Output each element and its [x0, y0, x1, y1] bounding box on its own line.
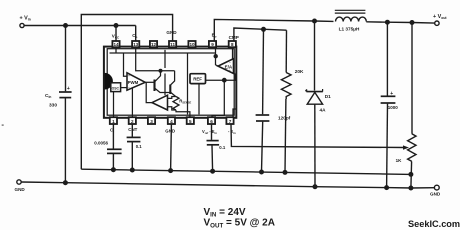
svg-text:0.0056: 0.0056	[94, 140, 108, 145]
wire internal Vcc/EA-out rail	[110, 47, 216, 53]
terminal GND right	[434, 185, 439, 190]
node collector rail junction	[159, 69, 163, 73]
svg-text:D1: D1	[325, 94, 331, 99]
wire Rsense bottom to pin5	[176, 110, 190, 117]
wire pin13 internal collector rail	[136, 47, 175, 71]
node bus/CNT-cap junction	[130, 168, 135, 173]
svg-text:Co: Co	[132, 33, 137, 39]
pin 1	[110, 117, 117, 124]
svg-text:Vref - Ein: Vref - Ein	[202, 129, 217, 135]
wire 20K bottom to bus	[284, 99, 287, 172]
IC pin squares top row	[112, 41, 235, 47]
transistor Q2	[170, 71, 176, 97]
svg-text:CNT: CNT	[128, 127, 137, 132]
pin numbers top	[113, 42, 234, 47]
capacitor pin6 0.1	[207, 124, 220, 171]
svg-text:PWM: PWM	[128, 80, 139, 85]
capacitor Cout 1000	[381, 22, 396, 187]
resistor 20K	[281, 73, 291, 100]
wire pin2 internal	[131, 86, 133, 117]
svg-text:0.1: 0.1	[136, 144, 143, 149]
wire output rail from L1 to +Vout	[366, 22, 434, 23]
pin 2	[129, 117, 136, 124]
node Vin/pin14 junction	[114, 23, 119, 28]
node D1/ground junction	[313, 184, 318, 189]
transistor Q1	[155, 71, 171, 93]
op-amp E/A error amplifier	[218, 59, 234, 74]
IC pin squares bottom row	[110, 117, 234, 124]
svg-text:4A: 4A	[320, 107, 327, 112]
svg-text:330: 330	[49, 102, 57, 108]
dark blob left edge of IC	[105, 73, 113, 90]
svg-text:REF: REF	[193, 77, 202, 82]
inductor L1 coil	[336, 17, 367, 21]
svg-text:=: =	[2, 123, 5, 128]
svg-text:OSC: OSC	[112, 86, 120, 90]
pin numbers bottom	[112, 119, 232, 124]
capacitor CNT 0.1	[127, 124, 141, 170]
terminal +Vout	[435, 21, 439, 25]
pin 6	[208, 117, 215, 124]
wire OSC to PWM	[121, 87, 127, 89]
pin 10	[188, 41, 195, 47]
node Cout junction	[385, 20, 390, 25]
svg-text:5: 5	[189, 119, 192, 124]
capacitor Ct 0.0056	[107, 124, 122, 170]
svg-text:7: 7	[229, 119, 232, 124]
svg-text:4: 4	[170, 119, 173, 124]
diode D1 4A	[305, 21, 323, 187]
resistor Rsense	[173, 97, 179, 111]
svg-text:+: +	[67, 86, 70, 92]
wire comparator output to base node	[146, 82, 152, 102]
svg-text:Cin: Cin	[45, 93, 51, 99]
voltage reference REF box	[190, 74, 206, 84]
svg-text:+ Vout: + Vout	[433, 14, 447, 20]
node EA output junction	[214, 54, 218, 58]
pin 12	[150, 41, 157, 47]
svg-text:VOUT = 5V @ 2A: VOUT = 5V @ 2A	[204, 218, 275, 230]
svg-text:1K: 1K	[396, 158, 403, 163]
wire pin7 internal to right edge rail	[233, 109, 236, 117]
svg-text:1000: 1000	[388, 105, 399, 110]
op-amp current comparator	[152, 95, 168, 110]
IC U1 inner outline	[107, 49, 234, 116]
svg-text:20K: 20K	[295, 69, 304, 74]
potentiometer 1K	[408, 23, 416, 189]
wire REF bottom drop	[198, 84, 200, 115]
pin 5	[187, 117, 194, 124]
pin 7	[226, 117, 233, 124]
pin 4	[168, 117, 175, 124]
node Cout/ground junction	[384, 185, 389, 190]
svg-text:CMP: CMP	[229, 35, 239, 40]
svg-text:10: 10	[189, 42, 195, 47]
IC U1 body outline	[104, 47, 236, 118]
pin 3	[148, 117, 155, 124]
svg-text:- Ein: - Ein	[228, 129, 236, 135]
wire pin4 to ground bus	[170, 124, 173, 171]
wire pin8 internal drop	[232, 47, 234, 59]
wire pin9 internal drop	[216, 47, 219, 66]
pin 8	[229, 41, 236, 47]
svg-text:2: 2	[131, 119, 134, 124]
wire component ground bus	[81, 169, 411, 174]
node pot-top junction	[410, 20, 415, 25]
capacitor Cin 330	[59, 26, 72, 183]
node bus/Ct junction	[111, 167, 116, 172]
wire REF output	[206, 79, 225, 81]
wire pin11 ground routing over IC	[81, 15, 172, 170]
svg-text:120pf: 120pf	[278, 115, 291, 120]
node bus/pot junction	[408, 172, 413, 177]
terminal GND left	[17, 180, 21, 184]
pin 11	[169, 41, 176, 47]
node Cin/ground junction	[63, 180, 68, 185]
svg-text:6: 6	[210, 119, 213, 124]
node bus/20K junction	[283, 170, 288, 175]
svg-text:12: 12	[151, 42, 157, 47]
terminal +Vin	[20, 23, 24, 27]
svg-text:L1 375μH: L1 375μH	[339, 26, 360, 31]
node D1/L1 switch node	[312, 19, 317, 24]
op-amp PWM comparator	[127, 73, 145, 90]
svg-text:SeekIC.com: SeekIC.com	[408, 219, 460, 229]
pin 14	[112, 41, 119, 47]
node CMP/120pf junction	[261, 27, 266, 32]
svg-text:GND: GND	[15, 187, 26, 192]
svg-text:9: 9	[211, 42, 214, 47]
wire REF node down to pin6	[212, 80, 224, 117]
node pot/ground junction	[408, 186, 413, 191]
svg-text:8: 8	[231, 42, 234, 47]
pot wiper arrowhead	[403, 145, 409, 149]
node REF/EA junction	[222, 78, 227, 83]
wire OSC to pin1	[113, 92, 115, 117]
wire internal vertical left of REF	[187, 53, 189, 114]
wire comparator input stubs	[168, 97, 176, 111]
wire internal rail to PWM input	[124, 53, 128, 76]
svg-text:14: 14	[113, 42, 119, 47]
svg-text:GND: GND	[165, 129, 175, 134]
svg-text:GND: GND	[430, 191, 441, 196]
wire +Vin rail	[24, 25, 136, 27]
oscillator OSC box	[111, 83, 121, 92]
wire pin8 CMP rail	[234, 28, 287, 41]
node Vin/Cin junction	[63, 23, 68, 28]
svg-text:−: −	[128, 86, 130, 90]
svg-text:GND: GND	[166, 30, 177, 35]
svg-text:+: +	[390, 91, 393, 97]
wire pin14 to Vin rail	[115, 26, 117, 42]
node bus/pin6-cap junction	[210, 169, 215, 174]
inductor L1 core bars	[335, 10, 366, 13]
wire pin7 to pot wiper	[231, 124, 404, 148]
svg-text:11: 11	[170, 42, 175, 47]
node bus/pin4 junction	[168, 168, 173, 173]
pin 9	[209, 41, 216, 47]
wire PWM output to Q1 base	[145, 81, 154, 83]
svg-text:3: 3	[150, 119, 153, 124]
wire internal osc vertical	[164, 50, 166, 95]
capacitor 120pf	[256, 29, 270, 172]
svg-text:0.1: 0.1	[219, 145, 226, 150]
wire 20K top	[285, 30, 287, 72]
wire pin9 Eo to switch rail	[214, 19, 333, 41]
svg-text:13: 13	[133, 42, 139, 47]
svg-text:+: +	[229, 69, 231, 73]
svg-text:−: −	[229, 60, 231, 64]
svg-text:+ Vin: + Vin	[20, 16, 31, 22]
svg-text:1: 1	[112, 119, 115, 124]
wire REF node to EA plus input	[224, 73, 235, 80]
svg-text:Eo: Eo	[212, 33, 217, 39]
wire pin13 to Vin rail	[135, 26, 137, 42]
wire main ground rail	[21, 182, 434, 188]
pin 13	[132, 41, 139, 47]
svg-text:+: +	[128, 74, 130, 78]
node bus/120pf junction	[259, 170, 264, 175]
